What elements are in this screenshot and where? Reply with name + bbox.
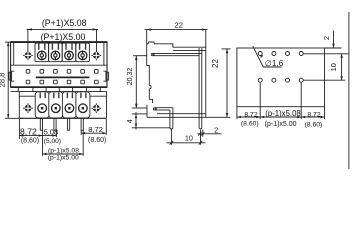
svg-text:10: 10 — [329, 63, 338, 71]
label (8.60) right — [88, 137, 106, 144]
dimension (P+1)X5.00 label — [41, 32, 86, 42]
lower bent pin (front row) — [153, 108, 172, 129]
label (8.60) footprint right — [305, 121, 323, 128]
svg-text:∅1,6: ∅1,6 — [265, 59, 284, 68]
extension line block right — [105, 119, 107, 135]
dimension 28,8 label — [0, 73, 7, 88]
pin 2 front view — [54, 118, 56, 130]
label 2 (side view) — [214, 126, 218, 135]
dimension 22 right (side view) — [206, 49, 231, 117]
flange hole left (crosshair) — [23, 51, 33, 61]
dimension 8,72/(8.60) right line — [81, 132, 106, 134]
svg-text:8,72: 8,72 — [20, 127, 37, 137]
svg-text:(P+1)X5.00: (P+1)X5.00 — [41, 32, 86, 42]
footprint bottom dimension line — [237, 116, 325, 118]
label (p-1)x5.08 footprint — [265, 109, 301, 118]
side view upper internal line — [173, 49, 206, 51]
svg-text:20,32: 20,32 — [127, 68, 134, 86]
lower screw housing S8 — [76, 92, 90, 118]
label 8,72 right — [88, 125, 103, 134]
svg-text:22: 22 — [174, 21, 182, 30]
svg-text:(8.60): (8.60) — [241, 121, 259, 128]
screw S3 — [65, 51, 74, 60]
pin 3 front view — [68, 118, 70, 130]
dimension 22 top line — [145, 28, 208, 43]
middle band bar — [36, 76, 90, 78]
label 5,08 — [44, 127, 58, 136]
label 4 — [127, 119, 134, 123]
lower screw S5 — [38, 104, 47, 113]
dimension (p-1)x5.08 line — [43, 153, 84, 155]
lower screw S6 — [52, 104, 61, 113]
right side latch tab — [103, 71, 108, 81]
screw housing S3 — [62, 43, 76, 62]
label (8.60) footprint left — [241, 121, 259, 128]
hole row bottom — [258, 78, 303, 82]
dimension 10 (side view pins) — [167, 129, 206, 145]
label (p-1)x5.08 — [48, 147, 79, 154]
dimension (P+1)X5.08 label — [42, 18, 87, 28]
dimension 8,72/(8,60) left line — [19, 134, 42, 136]
label (p-1)x5.00 footprint — [265, 121, 297, 128]
label 10 (footprint) — [329, 63, 338, 71]
label 8,72 footprint left — [244, 111, 257, 118]
dimension 20,32 — [132, 56, 147, 108]
lower screw S8 — [79, 104, 88, 113]
label 20,32 — [127, 68, 134, 86]
svg-text:28,8: 28,8 — [0, 73, 7, 88]
label 8,72 footprint right — [307, 111, 320, 118]
footprint rectangle — [237, 48, 325, 107]
lower screw housing S7 — [62, 92, 76, 118]
svg-text:22: 22 — [211, 59, 220, 68]
footprint bottom extension lines — [237, 82, 325, 119]
hole row top — [258, 52, 303, 56]
label (p-1)x5.00 — [48, 154, 79, 161]
label 2 (footprint) — [322, 36, 331, 40]
flange band — [11, 87, 107, 92]
extension line pin4 left edge — [80, 130, 82, 135]
svg-text:(p-1)x5.08: (p-1)x5.08 — [48, 147, 79, 154]
dimension 2 (side view pin) — [197, 130, 221, 137]
side view body outline — [147, 30, 206, 118]
dimension 28,8 vertical — [5, 42, 24, 118]
lower screw housing S5 — [35, 92, 49, 118]
lower flange hole right (crosshair) — [91, 103, 101, 113]
svg-text:2: 2 — [214, 126, 218, 135]
hole diameter leader — [253, 46, 282, 67]
screw housing S4 — [76, 43, 90, 62]
label 8,72 left — [20, 127, 37, 137]
svg-text:8,72: 8,72 — [88, 125, 103, 134]
extension line pin2 — [55, 130, 57, 137]
svg-text:5,08: 5,08 — [44, 127, 58, 136]
inner wall right — [103, 42, 105, 65]
extension lines right side of footprint — [303, 48, 348, 80]
dimension 10 (footprint) — [340, 54, 342, 80]
svg-text:(P+1)X5.08: (P+1)X5.08 — [42, 18, 87, 28]
lower flange hole left (crosshair) — [23, 103, 33, 113]
inner wall left — [13, 42, 15, 65]
label (8,60) left — [21, 138, 39, 145]
screw housing S2 — [49, 43, 63, 62]
pin 4 front view — [81, 118, 83, 130]
svg-text:(8,60): (8,60) — [21, 138, 39, 145]
screw S4 — [78, 51, 87, 60]
label (5,00) — [44, 138, 61, 145]
svg-text:8,72: 8,72 — [244, 111, 257, 118]
dimension (P+1)X5.08 line — [27, 28, 99, 51]
label 22 right — [211, 59, 220, 68]
svg-text:(8.60): (8.60) — [88, 137, 106, 144]
label diameter 1,6 — [265, 59, 284, 68]
svg-text:2: 2 — [322, 36, 331, 40]
flange hole right (crosshair) — [91, 51, 101, 61]
screw row separator line — [11, 64, 107, 66]
extension line pin4 right edge — [82, 130, 84, 156]
dimension 5,08 line — [43, 134, 57, 136]
screw S2 — [51, 51, 60, 60]
svg-text:4: 4 — [127, 119, 134, 123]
label 22 top — [174, 21, 182, 30]
svg-text:(p-1)x5.08: (p-1)x5.08 — [265, 109, 301, 118]
middle band small squares bottom row — [26, 80, 98, 84]
screw S1 — [38, 51, 47, 60]
svg-text:(p-1)x5.00: (p-1)x5.00 — [48, 154, 79, 161]
extension line pin1 — [42, 130, 44, 156]
svg-text:10: 10 — [185, 133, 193, 142]
upper bent pin (back row) — [151, 48, 202, 129]
svg-text:(5,00): (5,00) — [44, 138, 61, 145]
extension line block left — [18, 119, 20, 139]
middle band small squares top row — [26, 70, 98, 74]
dimension 2 (footprint) — [332, 31, 334, 48]
lower screw S7 — [65, 104, 74, 113]
screw housing S1 — [35, 43, 49, 62]
drawing frame border line — [348, 12, 350, 169]
pin 1 front view — [40, 118, 42, 130]
lower block outline — [19, 92, 106, 119]
svg-text:8,72: 8,72 — [307, 111, 320, 118]
side view shelf line — [157, 113, 206, 115]
left side latch tab — [9, 71, 14, 81]
front view upper body outline — [11, 42, 107, 87]
dimension 4 — [132, 112, 171, 130]
label 10 (side view) — [185, 133, 193, 142]
svg-text:(p-1)x5.00: (p-1)x5.00 — [265, 121, 297, 128]
svg-text:(8.60): (8.60) — [305, 121, 323, 128]
lower screw housing S6 — [49, 92, 63, 118]
